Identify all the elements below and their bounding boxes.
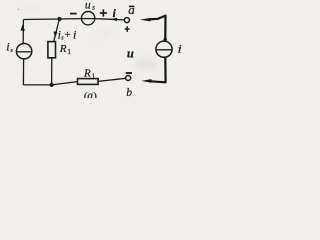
svg-text:1: 1 (67, 48, 71, 56)
wire bottom right segment (resistor to terminal b) (98, 78, 126, 81)
svg-text:+: + (64, 29, 70, 41)
label plus of us (100, 9, 107, 16)
scan speck (18, 9, 19, 10)
label i (external source) (177, 42, 182, 56)
node junction dot top (node between is, R1 branch and us) (57, 17, 61, 21)
svg-text:R: R (59, 43, 67, 55)
label a (128, 2, 135, 17)
wire external top (arrow into terminal a, from current source I) (140, 16, 166, 41)
svg-text:i: i (6, 39, 9, 53)
wire branch from top node down to resistor R1 (54, 19, 60, 42)
svg-text:i: i (177, 42, 182, 56)
label plus of u (below a) (125, 26, 130, 32)
voltage source US (circle, wire passes through) (81, 12, 94, 25)
paper background (0, 0, 188, 98)
terminal node a (open circle) (124, 18, 129, 23)
arrow of source is pointing up (21, 24, 25, 30)
scan smudge artifact (134, 57, 158, 71)
label is+i (58, 27, 77, 41)
arrow of source I (above circle) (163, 34, 167, 40)
svg-text:s: s (92, 3, 95, 11)
label u_s (85, 0, 95, 11)
label minus of us (70, 13, 77, 15)
arrow of branch current is+i pointing down (53, 32, 57, 38)
current source IS (circle with horizontal bar) (16, 44, 31, 59)
svg-text:1: 1 (92, 72, 96, 80)
label current i on top wire (113, 6, 117, 20)
label port voltage u (127, 46, 134, 60)
current source I (circle with horizontal bar) (156, 41, 172, 57)
svg-text:): ) (93, 91, 97, 98)
wire left branch upper (corner down to is source top) (22, 20, 24, 44)
wire left branch lower (is source bottom to bottom-left corner) (22, 60, 24, 86)
label minus of u (above b) (126, 72, 132, 74)
resistor R1 vertical body (48, 42, 56, 58)
label b (126, 87, 132, 99)
wire top from left corner through node to us and terminal a (24, 19, 125, 20)
label R1 (horizontal resistor) (83, 68, 96, 81)
caption (a) (84, 90, 97, 103)
wire bottom left segment (23, 82, 77, 85)
svg-text:a: a (87, 90, 93, 98)
wire from resistor R1 down to bottom junction (51, 58, 53, 85)
svg-text:R: R (83, 68, 91, 80)
terminal node b (open circle) (126, 76, 131, 81)
wire external bottom (from source I down and left, arrow into terminal b) (141, 58, 165, 83)
label R1 (vertical resistor) (59, 43, 72, 56)
arrow of current i pointing left on top wire (110, 18, 117, 21)
svg-text:u: u (127, 46, 134, 60)
label i_s (6, 39, 13, 53)
svg-text:u: u (85, 0, 91, 11)
node junction dot bottom (50, 83, 54, 87)
resistor R2 horizontal body (labelled R1 in figure) (78, 79, 99, 85)
svg-text:b: b (126, 87, 132, 98)
svg-text:a: a (128, 2, 135, 17)
scan streak artifact (22, 6, 112, 41)
svg-text:i: i (73, 27, 76, 41)
